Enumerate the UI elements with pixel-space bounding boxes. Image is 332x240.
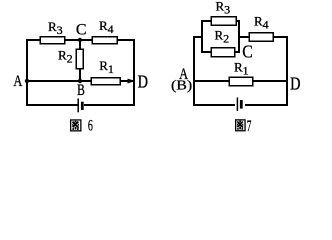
wire: fig7 middle rail A(B) to D [194,80,287,82]
wire: fig7 R4 to right corner [273,36,287,38]
svg-text:C: C [242,42,252,62]
node C (fig6) [78,38,82,42]
resistor R3 (fig6) [40,37,65,44]
wire: fig7 right vertical (D column) [286,37,288,105]
svg-text:C: C [76,22,87,39]
wire: fig7 R2 left lead [202,51,211,53]
wire: fig7 R2 right lead to node C [235,51,239,53]
current arrow into node D (fig6) [128,79,136,84]
wire: fig7 bottom rail left of battery [194,104,234,106]
wire: fig6 C to B branch [79,40,81,81]
wire: fig6 top rail [27,39,134,41]
battery cell (fig6) [78,99,82,113]
svg-text:A: A [13,73,23,91]
battery cell (fig7) [237,98,241,112]
svg-text:B: B [77,82,85,99]
wire: fig6 middle rail A to D [27,80,134,82]
wire: fig7 C to R4 [239,36,249,38]
resistor R2 (fig7) [211,48,235,57]
wire: fig7 left bracket of R3/R2 [201,21,203,52]
wire: fig7 R3 right lead [236,20,239,22]
caption glyph 图 (fig6) [71,120,81,131]
node A (fig6) [25,79,29,83]
svg-text:D: D [138,71,149,92]
resistor R3 (fig7) [211,17,236,26]
wire: fig6 left vertical (A column) [26,40,28,105]
wire: fig7 bottom rail right of battery [246,104,287,106]
resistor R4 (fig6) [92,37,117,44]
resistor R1 (fig6) [91,78,120,85]
svg-text:7: 7 [247,118,252,135]
wire: fig6 right vertical (D column) [133,40,135,105]
resistor R2 (fig6) [76,49,83,69]
svg-text:6: 6 [88,116,93,134]
wire: fig7 left vertical below A [193,37,195,105]
wire: fig7 right bracket (node C column) [238,21,240,52]
svg-text:D: D [290,73,301,94]
wire: fig6 bottom rail left of battery [27,104,78,106]
resistor R1 (fig7) [229,77,252,85]
wire: fig7 stub to parallel bank [194,36,202,38]
resistor R4 (fig7) [249,33,273,42]
wire: fig7 R3 left lead [202,20,211,22]
node B (fig6) [78,79,82,83]
wire: fig6 bottom rail right of battery [85,104,134,106]
caption glyph 图 (fig7) [236,120,245,131]
svg-text:(B): (B) [171,79,192,93]
